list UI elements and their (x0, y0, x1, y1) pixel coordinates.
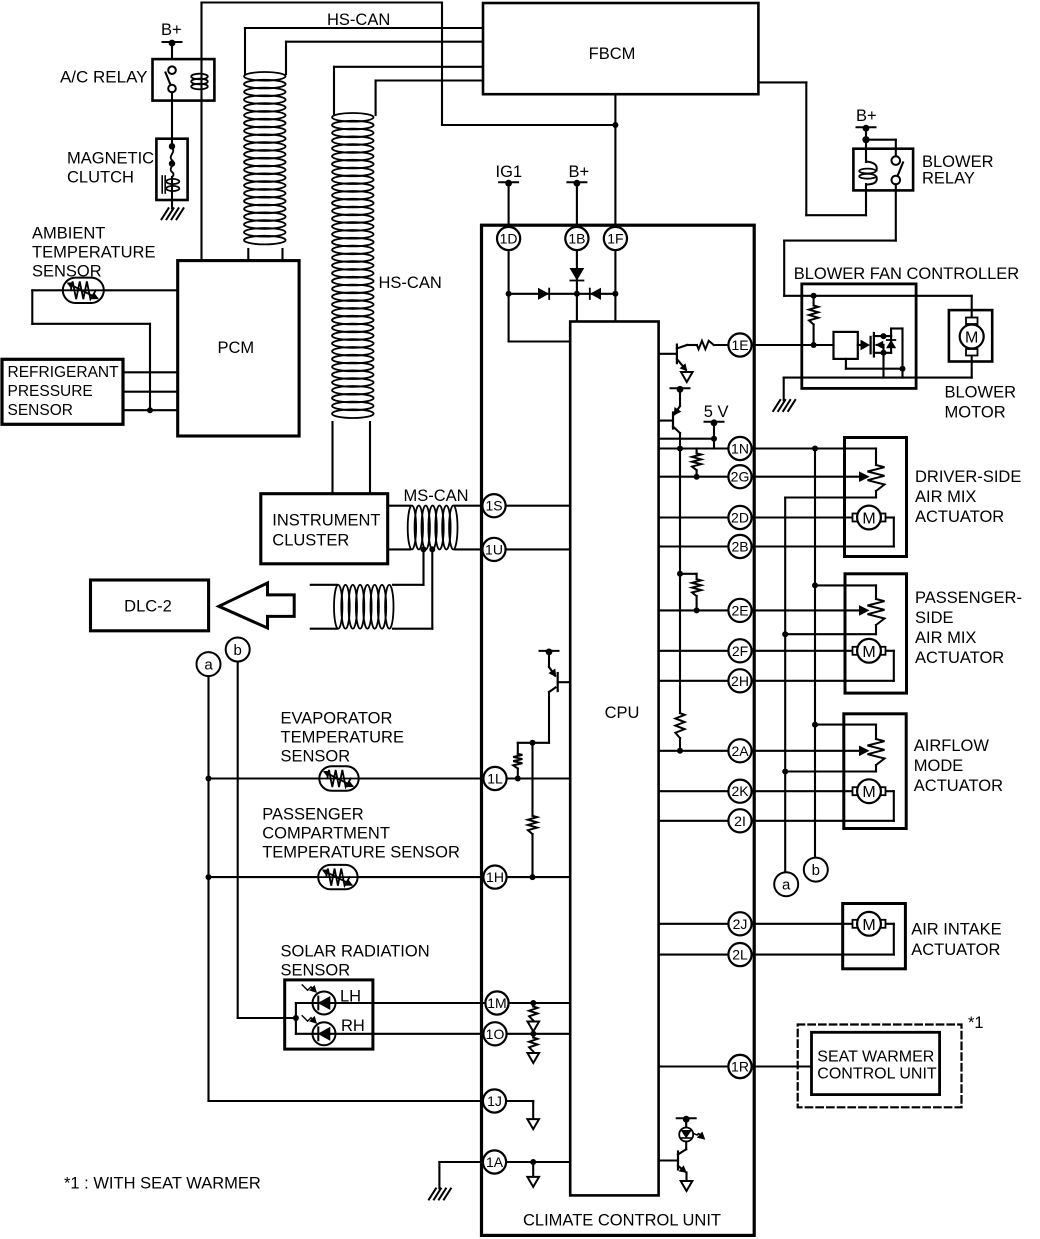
svg-text:MOTOR: MOTOR (945, 404, 1006, 422)
svg-text:5 V: 5 V (704, 403, 729, 421)
svg-text:AIR INTAKE: AIR INTAKE (911, 921, 1001, 939)
svg-text:CPU: CPU (605, 704, 640, 722)
svg-text:SEAT WARMER: SEAT WARMER (817, 1049, 934, 1066)
svg-text:BLOWER: BLOWER (945, 384, 1017, 402)
svg-text:SENSOR: SENSOR (8, 402, 73, 419)
svg-text:2H: 2H (731, 673, 749, 689)
svg-text:1N: 1N (731, 441, 749, 457)
svg-text:a: a (204, 656, 213, 673)
svg-text:AMBIENT: AMBIENT (32, 225, 105, 243)
svg-text:*1 : WITH SEAT WARMER: *1 : WITH SEAT WARMER (64, 1175, 261, 1193)
svg-text:PRESSURE: PRESSURE (8, 383, 93, 400)
svg-text:BLOWER: BLOWER (922, 153, 994, 171)
svg-text:ACTUATOR: ACTUATOR (911, 941, 1000, 959)
svg-text:HS-CAN: HS-CAN (379, 274, 442, 292)
svg-text:EVAPORATOR: EVAPORATOR (281, 710, 393, 728)
svg-text:AIR MIX: AIR MIX (915, 488, 976, 506)
svg-text:2L: 2L (732, 947, 748, 963)
svg-text:MAGNETIC: MAGNETIC (67, 150, 154, 168)
svg-text:RELAY: RELAY (922, 170, 975, 188)
svg-text:CLUTCH: CLUTCH (67, 169, 134, 187)
svg-text:MODE: MODE (914, 757, 964, 775)
svg-text:1H: 1H (486, 869, 504, 885)
svg-text:B+: B+ (569, 163, 590, 181)
svg-text:1O: 1O (486, 1026, 505, 1042)
svg-text:TEMPERATURE SENSOR: TEMPERATURE SENSOR (262, 844, 460, 862)
svg-text:HS-CAN: HS-CAN (327, 11, 390, 29)
svg-text:RH: RH (341, 1017, 365, 1035)
svg-text:a: a (782, 877, 791, 894)
svg-text:1U: 1U (485, 541, 503, 557)
svg-text:2J: 2J (733, 916, 748, 932)
svg-text:AIRFLOW: AIRFLOW (914, 737, 990, 755)
svg-text:1E: 1E (731, 337, 748, 353)
svg-text:AIR MIX: AIR MIX (915, 629, 976, 647)
svg-text:M: M (862, 644, 875, 661)
svg-text:CLUSTER: CLUSTER (272, 532, 349, 550)
svg-text:1D: 1D (500, 231, 518, 247)
svg-text:1J: 1J (487, 1093, 502, 1109)
svg-text:CONTROL UNIT: CONTROL UNIT (817, 1066, 937, 1083)
svg-text:1L: 1L (487, 771, 503, 787)
svg-text:PASSENGER: PASSENGER (262, 806, 364, 824)
svg-text:ACTUATOR: ACTUATOR (915, 649, 1004, 667)
svg-text:TEMPERATURE: TEMPERATURE (32, 244, 155, 262)
svg-text:2D: 2D (731, 510, 749, 526)
svg-text:SOLAR RADIATION: SOLAR RADIATION (281, 943, 430, 961)
svg-text:TEMPERATURE: TEMPERATURE (281, 729, 404, 747)
svg-text:PASSENGER-: PASSENGER- (915, 589, 1022, 607)
svg-text:2A: 2A (731, 743, 749, 759)
svg-text:CLIMATE CONTROL UNIT: CLIMATE CONTROL UNIT (523, 1212, 721, 1230)
svg-text:LH: LH (340, 988, 361, 1006)
svg-text:M: M (862, 917, 875, 934)
svg-text:2K: 2K (731, 783, 749, 799)
svg-text:SIDE: SIDE (915, 609, 954, 627)
svg-text:ACTUATOR: ACTUATOR (915, 508, 1004, 526)
svg-text:1B: 1B (568, 231, 585, 247)
svg-text:M: M (862, 511, 875, 528)
svg-text:SENSOR: SENSOR (281, 962, 351, 980)
svg-text:M: M (965, 330, 978, 347)
svg-text:PCM: PCM (217, 339, 254, 357)
svg-text:B+: B+ (161, 21, 182, 39)
svg-text:BLOWER FAN CONTROLLER: BLOWER FAN CONTROLLER (794, 265, 1020, 283)
svg-text:SENSOR: SENSOR (281, 748, 351, 766)
svg-text:2I: 2I (734, 813, 746, 829)
svg-text:2F: 2F (732, 643, 748, 659)
svg-text:*1: *1 (968, 1014, 984, 1032)
svg-text:M: M (862, 784, 875, 801)
svg-text:COMPARTMENT: COMPARTMENT (262, 825, 390, 843)
svg-text:2B: 2B (731, 539, 748, 555)
svg-text:2G: 2G (731, 469, 750, 485)
svg-text:INSTRUMENT: INSTRUMENT (272, 512, 380, 530)
svg-text:2E: 2E (731, 602, 748, 618)
svg-text:FBCM: FBCM (589, 45, 636, 63)
svg-text:1R: 1R (731, 1059, 749, 1075)
svg-text:1A: 1A (486, 1154, 504, 1170)
svg-text:1S: 1S (485, 498, 502, 514)
svg-text:MS-CAN: MS-CAN (404, 487, 469, 505)
svg-text:IG1: IG1 (496, 163, 523, 181)
svg-text:b: b (812, 862, 820, 879)
svg-text:DRIVER-SIDE: DRIVER-SIDE (915, 468, 1021, 486)
svg-text:A/C RELAY: A/C RELAY (60, 68, 148, 87)
svg-text:ACTUATOR: ACTUATOR (914, 777, 1003, 795)
svg-text:1F: 1F (607, 231, 623, 247)
svg-text:B+: B+ (856, 107, 877, 125)
svg-text:REFRIGERANT: REFRIGERANT (8, 364, 120, 381)
svg-text:DLC-2: DLC-2 (124, 598, 172, 616)
svg-text:b: b (234, 642, 242, 659)
svg-text:1M: 1M (487, 995, 506, 1011)
